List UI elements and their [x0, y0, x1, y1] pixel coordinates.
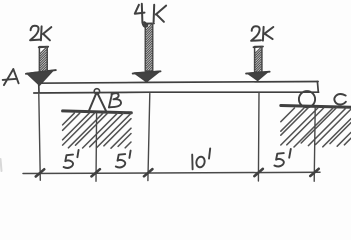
extension line at A: [39, 94, 41, 180]
load arrow 2K right: label: [251, 26, 273, 41]
ground hatching under C: [281, 108, 351, 147]
dimension label 5 ft (mid-C): [274, 149, 290, 167]
ground hatching under B: [63, 113, 131, 148]
dimension tick 3: [144, 169, 152, 176]
load arrow 2K right: head: [246, 72, 270, 81]
extension line at C: [314, 108, 315, 182]
roller support C: circle: [299, 91, 315, 107]
node C label: [334, 94, 346, 104]
ground line under C: [281, 106, 351, 108]
extension line at 10ft end: [257, 93, 260, 181]
load arrow 2K right: shaft: [254, 47, 264, 73]
dimension label 5 ft (B-mid): [116, 151, 131, 168]
dimension tick 4: [254, 169, 262, 176]
pin support B: triangle: [89, 94, 107, 112]
load arrow 2K left: shaft: [39, 47, 49, 73]
dimension label 10 ft: [192, 148, 210, 169]
node A label: [3, 69, 19, 85]
dimension line: [23, 172, 320, 173]
dimension label 5 ft (A-B): [64, 150, 79, 168]
node B label: [109, 93, 121, 107]
load arrow 4K middle: head: [133, 71, 161, 82]
dimension tick at C: [310, 169, 318, 176]
dimension tick at A: [36, 169, 44, 176]
load arrow 2K left: head: [26, 70, 56, 85]
load arrow 4K middle: shaft: [144, 23, 154, 71]
ground line under B: [63, 111, 132, 113]
extension line at B: [95, 113, 98, 182]
pin support B: apex circle: [94, 89, 99, 94]
stray pencil smudge left edge: [1, 159, 2, 171]
load arrow 4K middle: label: [135, 4, 166, 27]
extension line at 10ft start: [148, 94, 150, 181]
dimension tick at B: [92, 169, 100, 176]
beam (member A to C): [34, 81, 319, 93]
load arrow 2K left: label: [30, 26, 51, 41]
